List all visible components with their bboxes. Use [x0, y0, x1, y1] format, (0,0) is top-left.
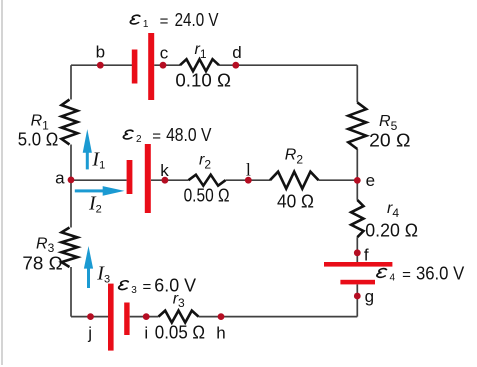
svg-text:0.50 Ω: 0.50 Ω — [184, 185, 230, 205]
svg-text:e: e — [366, 171, 375, 190]
svg-text:=: = — [152, 128, 161, 145]
svg-text:36.0 V: 36.0 V — [416, 263, 464, 283]
svg-text:2: 2 — [136, 134, 142, 145]
svg-text:=: = — [143, 279, 152, 296]
svg-text:c: c — [160, 44, 169, 63]
svg-text:l: l — [246, 160, 251, 180]
svg-text:0.10 Ω: 0.10 Ω — [175, 71, 231, 91]
svg-text:4: 4 — [390, 273, 396, 284]
svg-text:i: i — [144, 324, 148, 343]
svg-text:3: 3 — [131, 285, 137, 296]
svg-text:24.0 V: 24.0 V — [175, 10, 219, 30]
svg-text:20 Ω: 20 Ω — [369, 131, 410, 151]
svg-text:0.20 Ω: 0.20 Ω — [365, 221, 418, 241]
svg-text:g: g — [365, 287, 374, 306]
svg-text:=: = — [160, 13, 169, 30]
svg-text:5.0 Ω: 5.0 Ω — [18, 130, 59, 150]
svg-text:k: k — [160, 161, 169, 180]
svg-text:=: = — [402, 266, 411, 283]
svg-text:40 Ω: 40 Ω — [277, 192, 314, 212]
svg-text:f: f — [364, 246, 369, 265]
svg-text:78 Ω: 78 Ω — [22, 253, 62, 273]
svg-text:48.0 V: 48.0 V — [166, 125, 211, 145]
svg-text:1: 1 — [143, 19, 149, 30]
svg-text:a: a — [55, 168, 65, 187]
svg-text:0.05 Ω: 0.05 Ω — [155, 323, 205, 343]
svg-text:h: h — [216, 324, 225, 343]
svg-text:j: j — [87, 324, 92, 343]
svg-text:b: b — [96, 43, 105, 62]
svg-text:d: d — [232, 43, 241, 62]
